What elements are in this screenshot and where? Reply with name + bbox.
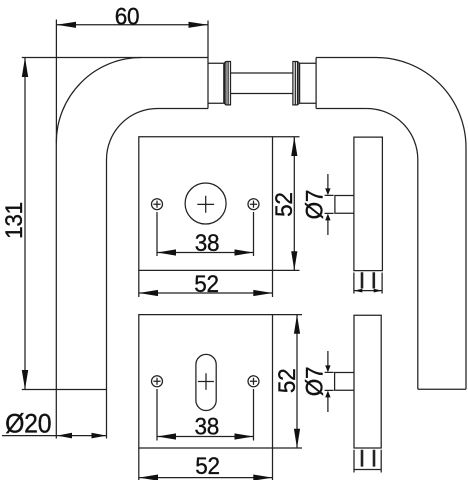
- dimension 52 rosette 2 bottom line: [139, 477, 273, 479]
- right lever grip right edge: [465, 148, 467, 390]
- dimension 52 rosette 1 bottom line: [139, 292, 273, 294]
- dimension diameter7 view2 arrow shafts: [327, 351, 329, 412]
- side view 1 bottom dimension arrowheads: [354, 289, 362, 293]
- dimension 52 rosette 1 right extension lines: [273, 137, 300, 271]
- dimension 52 rosette 2 bottom arrowheads: [139, 475, 158, 480]
- dimension 60 line: [56, 24, 208, 26]
- dimension 38 rosette 2 line: [157, 436, 254, 438]
- side view 1 spindle stub: [335, 196, 354, 214]
- dimension diameter7 view1 arrow shafts: [327, 174, 329, 235]
- rosette 1 right screw: [248, 199, 259, 210]
- dimension 38 rosette 1 arrowheads: [157, 249, 176, 255]
- side view 2 rosette bar: [354, 315, 381, 448]
- dimension diameter7 view1 ticks: [325, 195, 334, 213]
- svg-text:Ø7: Ø7: [301, 190, 328, 220]
- left lever grip right edge: [106, 160, 108, 390]
- dimension diameter7 view2 arrowheads: [325, 365, 330, 372]
- right lever tube bottom line: [316, 108, 367, 110]
- side view 1 rosette bar: [354, 137, 383, 271]
- dimension 52 rosette 1 bottom extension lines: [139, 270, 273, 297]
- dimension 38 rosette 2 extension lines: [157, 389, 254, 441]
- rosette 2 square: [139, 315, 273, 448]
- left lever tube bottom line: [158, 108, 209, 110]
- dimension 38 rosette 1 extension lines: [157, 212, 254, 256]
- svg-text:38: 38: [195, 413, 220, 440]
- dimension 52 rosette 2 right arrowheads: [294, 315, 300, 334]
- dimension 131 arrowheads: [22, 58, 28, 78]
- dimension 38 rosette 1 line: [157, 252, 254, 254]
- dimension diameter20 arrowheads: [57, 433, 72, 439]
- dimension diameter7 view1 arrowheads: [325, 188, 330, 195]
- spindle: [231, 73, 293, 94]
- side view 1 bottom dimension line: [354, 290, 382, 292]
- svg-text:60: 60: [115, 3, 140, 30]
- svg-text:Ø20: Ø20: [5, 410, 51, 439]
- left lever grip left edge: [55, 143, 57, 390]
- dimension 52 rosette 1 right arrowheads: [291, 137, 297, 156]
- svg-text:52: 52: [270, 192, 297, 217]
- dimension 52 rosette 2 right extension lines: [273, 315, 303, 448]
- dimension 52 rosette 1 right line: [293, 137, 295, 271]
- dimension 38 rosette 2 arrowheads: [157, 433, 176, 439]
- left lever grip bottom line with extension: [22, 389, 107, 391]
- side view 2 spindle stub: [335, 373, 354, 391]
- svg-text:52: 52: [194, 270, 219, 297]
- dimension 52 rosette 1 bottom arrowheads: [139, 290, 158, 296]
- right lever grip bottom line: [418, 388, 466, 390]
- svg-text:52: 52: [273, 369, 300, 394]
- rosette 1 left screw: [152, 199, 163, 210]
- svg-text:52: 52: [195, 452, 220, 479]
- side view 1 screw ends: [362, 272, 374, 288]
- dimension diameter20 line: [2, 435, 107, 437]
- dimension diameter7 view2 ticks: [325, 372, 334, 390]
- rosette 2 left screw: [152, 376, 163, 387]
- left lever outer bend curve: [56, 58, 141, 143]
- left collar ring: [224, 62, 230, 105]
- dimension 131 line: [24, 58, 26, 390]
- rosette 1 hole circle: [185, 183, 226, 224]
- left neck: [208, 63, 224, 103]
- dimension 60 extension lines: [56, 20, 208, 143]
- dimension diameter20 extension lines: [56, 390, 106, 439]
- side view 2 bottom dimension line: [354, 469, 381, 471]
- left lever handle top line with 131 extension: [22, 57, 208, 59]
- dimension 52 rosette 2 right line: [296, 315, 298, 448]
- rosette 2 keyhole capsule: [196, 354, 216, 410]
- dimension 60 arrowheads: [56, 22, 76, 28]
- rosette 2 right screw: [248, 376, 259, 387]
- rosette 1 hole cross: [197, 196, 214, 213]
- svg-text:131: 131: [0, 202, 27, 239]
- right lever tube end face: [315, 58, 317, 109]
- side view 1 bottom extension lines: [354, 273, 382, 294]
- side view 2 bottom extension lines: [354, 450, 381, 473]
- dimension 52 rosette 2 bottom extension lines: [139, 448, 273, 480]
- left lever tube end face: [207, 58, 209, 109]
- right lever tube top line: [316, 57, 376, 59]
- svg-text:Ø7: Ø7: [301, 367, 328, 397]
- rosette 2 capsule cross: [198, 373, 214, 390]
- right collar ring: [293, 62, 299, 105]
- right neck: [300, 63, 317, 103]
- side view 2 screw ends: [362, 450, 374, 467]
- right lever inner bend curve: [367, 109, 418, 160]
- svg-text:38: 38: [195, 229, 220, 256]
- rosette 1 square: [139, 137, 273, 271]
- right lever grip left edge: [417, 160, 419, 390]
- right lever outer bend curve: [376, 58, 466, 148]
- left lever inner bend curve: [107, 109, 158, 160]
